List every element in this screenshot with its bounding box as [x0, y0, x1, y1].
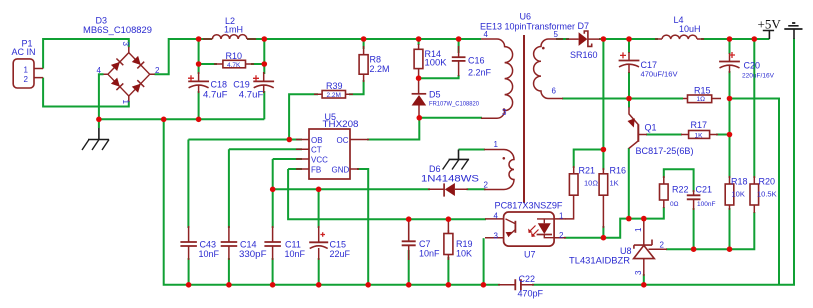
wire secondary pin5 to D7 anode [556, 38, 569, 40]
wire aux winding pin1 to chassis ground [459, 149, 486, 151]
svg-text:R15: R15 [694, 86, 711, 96]
inductor L2 [203, 35, 256, 39]
svg-text:Q1: Q1 [645, 123, 657, 133]
wire C21 bottom lead to ref line [693, 208, 695, 249]
capacitor C7 [402, 219, 416, 260]
svg-text:10K: 10K [456, 249, 472, 259]
svg-text:1: 1 [24, 66, 29, 75]
svg-text:2.2M: 2.2M [327, 92, 341, 99]
wire R39 left to OB node [289, 94, 318, 139]
wire VCC line to U5 [273, 158, 302, 160]
svg-text:D5: D5 [429, 90, 441, 100]
wire C19 top lead [263, 39, 265, 74]
+5V net flag [763, 31, 774, 40]
svg-text:C7: C7 [419, 239, 431, 249]
wire C15 top lead [318, 189, 320, 228]
diode D6 1N4148WS [428, 183, 468, 197]
svg-text:3: 3 [121, 42, 130, 47]
svg-text:6: 6 [552, 87, 557, 96]
wire L4 to +5V rail [701, 38, 769, 40]
wire R14 top lead [418, 39, 420, 45]
svg-text:2: 2 [660, 241, 665, 250]
resistor R39 [314, 91, 353, 99]
junction dots VCC supply line [270, 187, 276, 193]
junction dots +5V rail [601, 36, 607, 42]
wire opto pin2 to TL431 cathode line [564, 207, 664, 238]
junction dots R10 row [196, 61, 202, 67]
wire bridge pin4 to primary ground rail [99, 74, 104, 119]
svg-text:4: 4 [494, 212, 499, 221]
svg-text:AC IN: AC IN [12, 47, 36, 57]
junction dots bottom ground rail [186, 282, 192, 288]
svg-text:R10: R10 [226, 51, 243, 61]
earth ground top right [784, 23, 802, 39]
svg-text:SR160: SR160 [570, 50, 598, 60]
wire AC top: P1 pin1 to bridge pin3 [43, 39, 129, 69]
wire VCC supply line from D6 to C15 node [273, 188, 430, 190]
wire TL431 ref line [666, 212, 754, 249]
wire Q1 collector down to TL431 cathode line [628, 148, 630, 219]
svg-text:10nF: 10nF [285, 249, 306, 259]
wire U5 OC to primary switch node [367, 120, 419, 140]
transistor Q1 BC817 [628, 107, 648, 149]
capacitor C14 [221, 226, 238, 260]
wire primary ground rail [99, 118, 264, 120]
wire secondary pin6 line to R15 [562, 98, 683, 100]
svg-text:OB: OB [311, 136, 323, 145]
svg-text:10uH: 10uH [679, 24, 701, 34]
svg-text:EE13 10pinTransformer: EE13 10pinTransformer [480, 22, 575, 32]
svg-text:D7: D7 [578, 21, 590, 31]
svg-text:2: 2 [559, 231, 564, 240]
capacitor C11 [264, 226, 281, 260]
svg-text:OC: OC [337, 136, 349, 145]
svg-text:FR107W_C108820: FR107W_C108820 [429, 101, 479, 108]
svg-text:R17: R17 [691, 120, 708, 130]
svg-text:2: 2 [155, 66, 160, 75]
svg-text:BC817-25(6B): BC817-25(6B) [636, 146, 694, 156]
junction dots primary ground rail [96, 117, 102, 123]
svg-text:R18: R18 [731, 177, 748, 187]
svg-text:0Ω: 0Ω [670, 201, 679, 208]
wire C17 bottom lead [628, 72, 630, 99]
wire D5 anode line to transformer pin3 [419, 117, 482, 119]
wire C7 top lead [408, 219, 410, 240]
wire R8 top lead [363, 39, 365, 49]
junction dot R17 right [727, 132, 733, 138]
junction dot R14 bottom [416, 75, 422, 81]
svg-text:C20: C20 [744, 61, 761, 71]
svg-text:FB: FB [311, 165, 321, 174]
svg-text:1K: 1K [695, 132, 704, 139]
wire FB vertical and line to opto pin4 [288, 169, 486, 219]
wire C15 bottom lead [318, 258, 320, 285]
wire bottom rail left of C22 [164, 119, 500, 284]
svg-text:2: 2 [24, 75, 29, 84]
resistor R18 [725, 176, 734, 210]
capacitor C17 [619, 52, 640, 73]
wire TL431 anode to bottom rail [643, 274, 645, 285]
svg-text:C21: C21 [696, 185, 713, 195]
wire C14 top lead from CT line [228, 149, 230, 228]
svg-text:D6: D6 [429, 164, 441, 174]
svg-text:U7: U7 [524, 250, 536, 260]
wire R17 leads [646, 134, 730, 136]
svg-text:C14: C14 [240, 240, 257, 250]
svg-text:1mH: 1mH [224, 25, 243, 35]
resistor R8 [359, 46, 368, 82]
resistor R22 [660, 176, 669, 208]
wire R18 bottom lead [729, 208, 731, 249]
svg-text:10Ω: 10Ω [584, 179, 598, 188]
svg-text:PC817X3NSZ9F: PC817X3NSZ9F [495, 201, 564, 211]
svg-text:R22: R22 [672, 185, 689, 195]
wire R21 top branch [574, 150, 604, 169]
svg-text:GND: GND [332, 165, 350, 174]
inductor L4 [655, 35, 704, 39]
svg-text:1: 1 [494, 140, 499, 149]
wire CT line to U5 [229, 148, 302, 150]
capacitor C21 [687, 190, 701, 210]
chassis ground left (bridge negative) [82, 121, 109, 150]
junction dots TL431 ref line [691, 246, 697, 252]
wire opto pin1 up to R21 bottom [566, 195, 574, 219]
wire D7 cathode to C17 node and L4 [599, 38, 658, 40]
wire C20 top lead [729, 39, 731, 54]
svg-text:4.7K: 4.7K [227, 62, 241, 69]
resistor R20 [750, 176, 759, 213]
svg-text:TL431AIDBZR: TL431AIDBZR [569, 256, 631, 266]
capacitor C19 [253, 72, 274, 93]
wire C16 top lead [458, 39, 460, 53]
svg-text:2: 2 [484, 181, 489, 190]
capacitor C20 [719, 52, 740, 73]
wire C18 top lead [198, 39, 200, 74]
chassis ground at aux winding pin1 [443, 150, 470, 170]
svg-text:10nF: 10nF [199, 249, 220, 259]
wire R15 right node down through R17 node to R18 top [729, 99, 731, 179]
svg-text:10nF: 10nF [419, 249, 440, 259]
svg-text:C17: C17 [641, 60, 658, 70]
wire C43 top lead from OB line [187, 140, 189, 229]
optocoupler U7 PC817 [485, 212, 566, 246]
wire earth ground down right side to bottom rail [532, 39, 794, 285]
svg-text:C11: C11 [285, 240, 301, 250]
wire C43 bottom lead [188, 258, 190, 285]
svg-text:3: 3 [502, 108, 507, 117]
svg-text:R8: R8 [370, 55, 382, 65]
junction dots TL431 cathode line [626, 216, 632, 222]
svg-text:C19: C19 [233, 80, 250, 90]
svg-text:470pF: 470pF [518, 289, 544, 299]
svg-text:470uF/16V: 470uF/16V [641, 70, 678, 79]
svg-text:3: 3 [494, 232, 499, 241]
junction dots FB line [406, 216, 412, 222]
resistor R19 [444, 230, 453, 260]
wire C20 bottom lead to R15 right node [729, 71, 731, 99]
resistor R17 [681, 131, 718, 139]
wire R15 right to output ground vertical [730, 99, 780, 285]
svg-text:5: 5 [554, 30, 559, 39]
junction dot R21 R16 top [601, 147, 607, 153]
svg-text:10.5K: 10.5K [757, 190, 777, 199]
wire R8 bottom to R39 right [349, 80, 364, 94]
svg-text:220uF/16V: 220uF/16V [742, 73, 775, 80]
transformer U6 primary winding pins 4-3 [481, 39, 513, 118]
svg-text:4: 4 [484, 30, 489, 39]
transformer U6 secondary winding pins 5-6 [534, 39, 563, 99]
wire C19 bottom lead to ground rail [263, 91, 265, 119]
svg-text:2.2nF: 2.2nF [468, 68, 492, 78]
capacitor C43 [180, 226, 197, 260]
svg-text:U8: U8 [620, 246, 632, 256]
svg-text:100K: 100K [425, 58, 447, 68]
svg-text:4.7uF: 4.7uF [239, 90, 264, 100]
svg-text:C16: C16 [468, 56, 485, 66]
svg-text:R21: R21 [579, 166, 596, 176]
svg-text:MB6S_C108829: MB6S_C108829 [83, 25, 152, 35]
svg-text:CT: CT [311, 146, 322, 155]
resistor R16 [599, 168, 608, 228]
svg-text:1: 1 [559, 212, 564, 221]
svg-text:100nF: 100nF [697, 201, 715, 208]
bridge rectifier D3 [104, 47, 155, 102]
wire Q1 emitter up to pin6 line [628, 99, 630, 108]
svg-text:THX208: THX208 [323, 119, 359, 129]
junction dot OB node [287, 137, 293, 143]
wire R19 top lead [447, 219, 449, 233]
wire +5V rail down to R20 top [753, 39, 755, 178]
IC U5 THX208 [296, 129, 369, 179]
svg-text:R16: R16 [610, 166, 627, 176]
wire C11 bottom lead [272, 258, 274, 285]
connector P1 [13, 59, 43, 88]
diode D5 [412, 78, 427, 118]
svg-text:3: 3 [634, 270, 643, 275]
svg-text:R39: R39 [326, 81, 343, 91]
svg-text:1K: 1K [610, 179, 619, 188]
svg-text:U6: U6 [520, 12, 532, 22]
wire D6 anode to aux winding pin2 [467, 188, 486, 190]
junction dot D5 switch node [417, 115, 423, 121]
svg-text:4: 4 [97, 66, 102, 75]
svg-text:330pF: 330pF [239, 249, 267, 259]
capacitor C22 [498, 279, 534, 290]
svg-text:C22: C22 [519, 274, 536, 284]
wire C11 top lead / VCC vertical [272, 159, 274, 228]
resistor R21 [569, 166, 578, 195]
svg-text:VCC: VCC [311, 155, 328, 164]
diode D7 SR160 [566, 31, 600, 46]
svg-text:22uF: 22uF [330, 249, 351, 259]
transformer U6 aux winding pins 1-2 [484, 150, 514, 190]
wire R10 row [199, 63, 265, 65]
wire R22 C21 top bridge [664, 169, 694, 192]
wire D7 node down to R21 R16 tops [602, 39, 604, 170]
wire OB line to U5 [188, 139, 302, 141]
svg-text:C43: C43 [200, 240, 217, 250]
svg-text:R19: R19 [456, 239, 473, 249]
capacitor C16 [452, 46, 466, 76]
capacitor C15 [309, 226, 328, 260]
wire C14 bottom lead [228, 258, 230, 285]
svg-text:1N4148WS: 1N4148WS [421, 174, 479, 184]
svg-text:C18: C18 [211, 80, 228, 90]
svg-text:1: 1 [121, 100, 130, 105]
wire C17 top lead [628, 39, 630, 53]
svg-text:D3: D3 [96, 16, 108, 26]
wire R14 bottom to C16 bottom [419, 75, 459, 78]
svg-text:2.2M: 2.2M [370, 64, 390, 74]
wire R16 bottom lead [602, 226, 604, 238]
svg-text:+5V: +5V [758, 17, 782, 32]
svg-text:4.7uF: 4.7uF [203, 90, 228, 100]
resistor R10 [214, 60, 254, 68]
wire bridge pin2 to DC top rail [155, 39, 482, 74]
wire R19 bottom lead [447, 257, 449, 285]
junction dots secondary return line [626, 96, 632, 102]
wire FB line to U5 [288, 168, 302, 170]
transformer U6 core [523, 35, 525, 203]
wire C18 bottom lead to ground rail [198, 91, 200, 119]
wire opto pin3 to bottom rail [483, 238, 485, 285]
resistor R15 [683, 95, 721, 103]
svg-text:1: 1 [634, 227, 643, 232]
svg-text:10K: 10K [732, 190, 745, 199]
wire U5 GND down to bottom rail [357, 169, 368, 285]
junction dot R16 bottom [601, 235, 607, 241]
wire AC bottom: P1 pin2 to bridge pin1 [43, 78, 129, 107]
shunt regulator U8 TL431 [634, 219, 667, 276]
resistor R14 [414, 44, 423, 78]
svg-text:C15: C15 [330, 240, 347, 250]
junction dots top DC rail [196, 36, 202, 42]
wire C7 bottom lead [408, 250, 410, 285]
svg-text:R20: R20 [759, 177, 776, 187]
svg-text:1Ω: 1Ω [697, 96, 706, 103]
capacitor C18 [188, 72, 209, 93]
